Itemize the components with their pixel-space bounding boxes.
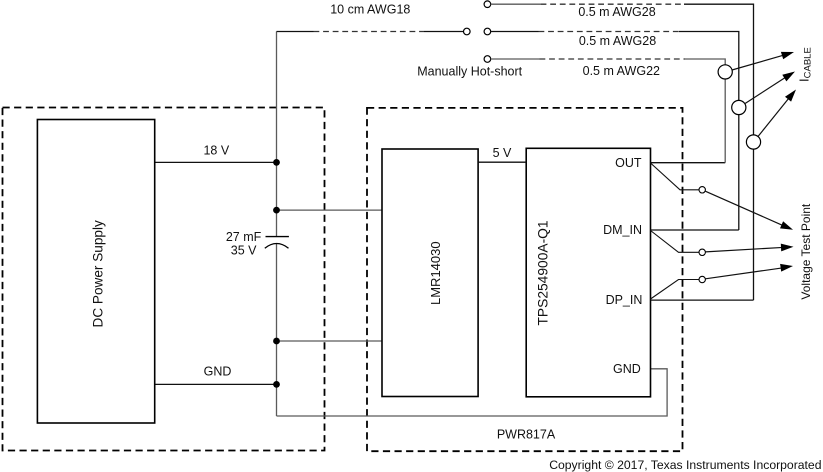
svg-text:GND: GND xyxy=(204,365,232,379)
wire: OUT pin to cable riser xyxy=(651,162,726,164)
wire: vertical bus lower (capacitor bottom to bottom return) xyxy=(276,243,278,416)
switch terminal circle (left) row 2 xyxy=(464,28,471,35)
current probe circle on DP riser xyxy=(746,135,760,149)
wire: GND from DC supply to bus xyxy=(155,383,277,385)
block: LMR14030 xyxy=(382,149,478,397)
svg-text:DC Power Supply: DC Power Supply xyxy=(91,220,106,327)
junction dot at LMR GND node xyxy=(273,338,280,345)
junction dot at LMR VIN node xyxy=(273,207,280,214)
cable row 1: 0.5 m AWG28 dashed xyxy=(541,3,684,5)
wire: 18 V from DC supply to bus xyxy=(155,161,277,163)
dashed enclosure: DC power supply box xyxy=(3,108,325,451)
svg-text:18 V: 18 V xyxy=(203,143,229,157)
svg-text:Copyright © 2017, Texas Instru: Copyright © 2017, Texas Instruments Inco… xyxy=(549,458,821,472)
wire: DM_IN pin to cable riser xyxy=(651,229,739,231)
switch terminal circle (right) row 2 xyxy=(484,28,491,35)
arrow from DP probe to ICABLE xyxy=(758,97,790,137)
wire: vertical bus upper (node 18V to capacitor top) xyxy=(276,32,278,237)
svg-text:DM_IN: DM_IN xyxy=(603,223,642,237)
svg-text:0.5 m AWG28: 0.5 m AWG28 xyxy=(578,5,655,19)
wire: DP_IN pin to cable riser xyxy=(651,299,754,301)
svg-text:LMR14030: LMR14030 xyxy=(428,241,443,305)
junction dot at GND node xyxy=(273,381,280,388)
switch terminal circle row 1 xyxy=(484,1,491,8)
svg-text:Manually Hot-short: Manually Hot-short xyxy=(417,64,522,78)
voltage test point circle (DM) xyxy=(699,249,705,255)
wire: feeder from bus to hot-short switch (10 cm AWG18) xyxy=(277,31,314,33)
wire: solid to switch terminal xyxy=(424,31,464,33)
arrow from OUT probe to ICABLE xyxy=(732,54,787,70)
wire row 1 solid segment xyxy=(491,3,541,5)
svg-text:DP_IN: DP_IN xyxy=(606,293,643,307)
junction dot at 18V node xyxy=(273,159,280,166)
block: DC Power Supply xyxy=(37,120,154,424)
svg-text:10 cm AWG18: 10 cm AWG18 xyxy=(330,2,410,16)
wire: bus to LMR14030 GND xyxy=(277,340,383,342)
wire row 2 solid to corner and riser to DM_IN xyxy=(679,32,739,231)
wire: 5 V between LMR14030 and TPS254900A-Q1 xyxy=(478,161,526,163)
switch terminal circle row 3 xyxy=(484,56,491,63)
wire row 3 solid to corner and riser to OUT xyxy=(685,59,725,163)
wire: bottom ground return xyxy=(277,369,668,416)
capacitor C1 27mF curved bottom plate xyxy=(265,244,289,249)
wire row 2 solid segment xyxy=(491,31,539,33)
svg-text:TPS254900A-Q1: TPS254900A-Q1 xyxy=(536,220,551,325)
svg-text:Voltage Test Point: Voltage Test Point xyxy=(799,203,813,300)
wire: bus to LMR14030 VIN xyxy=(277,209,383,211)
svg-text:PWR817A: PWR817A xyxy=(497,428,556,442)
dashed enclosure: PWR817A EVM box xyxy=(367,108,683,451)
svg-text:0.5 m AWG22: 0.5 m AWG22 xyxy=(583,64,660,78)
voltage test point circle (DP) xyxy=(699,276,705,282)
arrow from DM probe to ICABLE xyxy=(745,76,788,104)
svg-text:OUT: OUT xyxy=(615,156,642,170)
tap wire from OUT to voltage test point xyxy=(651,163,700,190)
svg-text:5 V: 5 V xyxy=(493,146,512,160)
wire row 1 solid to corner and riser to DP_IN xyxy=(684,4,754,300)
tap wire from DP_IN to voltage test point xyxy=(651,280,700,300)
svg-text:0.5 m AWG28: 0.5 m AWG28 xyxy=(579,34,656,48)
capacitor C1 27mF top plate xyxy=(266,236,289,238)
current probe circle on DM riser xyxy=(732,100,746,114)
current probe circle on OUT riser xyxy=(718,65,732,79)
cable row 2: 0.5 m AWG28 dashed xyxy=(539,31,680,33)
label ICABLE (rotated) xyxy=(797,47,814,82)
arrow from DP test point xyxy=(705,268,784,279)
svg-text:GND: GND xyxy=(613,362,641,376)
voltage test point circle (OUT) xyxy=(699,187,705,193)
svg-text:35 V: 35 V xyxy=(231,244,257,258)
svg-text:27 mF: 27 mF xyxy=(226,230,262,244)
arrow from OUT test point xyxy=(705,191,785,226)
wire row 3 solid segment xyxy=(491,58,540,60)
block: TPS254900A-Q1 xyxy=(526,148,650,396)
arrow from DM test point xyxy=(705,247,785,252)
cable: 10 cm AWG18 dashed section xyxy=(314,31,425,33)
tap wire from DM_IN to voltage test point xyxy=(651,231,700,253)
cable row 3: 0.5 m AWG22 dashed xyxy=(540,58,686,60)
